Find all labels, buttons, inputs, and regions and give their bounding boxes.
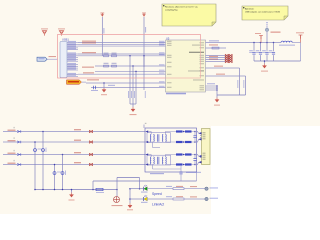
svg-text:Link/Act: Link/Act [152,202,164,206]
svg-text:sampling/ing: sampling/ing [165,10,178,12]
svg-text:Resistors allow LDO on LDO I v: Resistors allow LDO on LDO I via [165,6,198,9]
svg-text:Attention:: Attention: [245,8,255,11]
svg-text:U5: U5 [166,36,170,40]
svg-text:USB outputs can valid source /: USB outputs can valid source / BUS [245,11,281,14]
svg-text:Speed: Speed [152,192,162,196]
